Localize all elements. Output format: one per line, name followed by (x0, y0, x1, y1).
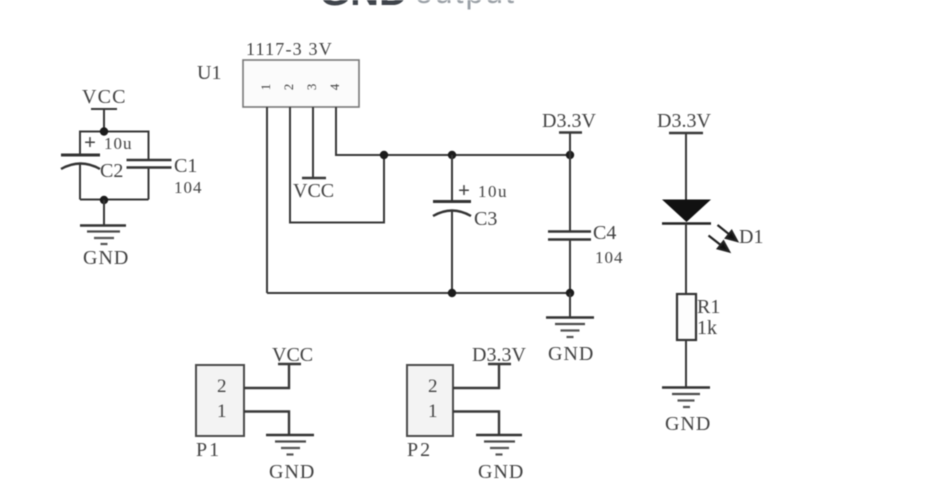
svg-text:104: 104 (595, 248, 624, 267)
wire LED cathode to R1 (685, 224, 687, 295)
connector P2 (407, 365, 453, 436)
wire P2 pin1 to ground (453, 412, 499, 435)
svg-text:10u: 10u (478, 182, 508, 201)
svg-text:U1: U1 (197, 62, 221, 84)
ground (LED) (662, 388, 710, 408)
ground (P2) (476, 435, 522, 455)
wire C3 top lead (451, 155, 453, 201)
junction C4/D3.3V top (566, 151, 574, 159)
wire C4 top lead (569, 155, 571, 231)
wire U1 pin1 to ground rail (266, 107, 268, 293)
svg-text:C2: C2 (100, 160, 123, 182)
svg-text:1: 1 (217, 401, 227, 422)
capacitor C1 (127, 160, 172, 168)
wire top rail C1/C2 (80, 132, 149, 161)
wire P2 pin2 to D3.3V (453, 365, 499, 389)
svg-text:C4: C4 (593, 222, 616, 244)
wire C4 bottom lead (569, 240, 571, 294)
junction C3 top (448, 151, 456, 159)
wire R1 to ground (685, 340, 687, 387)
svg-text:D3.3V: D3.3V (542, 110, 596, 132)
capacitor C2 (61, 155, 100, 169)
svg-text:GND: GND (319, 0, 408, 14)
regulator U1 (243, 60, 359, 107)
LED D1 (662, 200, 711, 224)
junction pin2/pin4 (380, 151, 388, 159)
wire U1 pin2 loop (290, 107, 384, 223)
LED light arrows (709, 225, 738, 252)
junction at C1/C2 bottom (100, 196, 108, 204)
svg-text:P2: P2 (407, 439, 432, 461)
wire P1 pin2 to VCC (244, 365, 289, 389)
wire C2 bottom lead (79, 164, 81, 200)
wire ground rail (bottom) (267, 292, 570, 294)
power symbol VCC (P1) (278, 363, 301, 365)
svg-text:GND: GND (548, 343, 594, 365)
capacitor C3 (433, 202, 471, 217)
svg-text:104: 104 (174, 178, 203, 197)
connector P1 (196, 365, 244, 436)
svg-text:VCC: VCC (272, 344, 313, 366)
svg-text:1117-3 3V: 1117-3 3V (246, 39, 333, 59)
wire to left ground (103, 200, 105, 225)
power symbol D3.3V (P2) (488, 363, 511, 365)
svg-text:C1: C1 (174, 155, 197, 177)
resistor R1 (677, 294, 696, 340)
svg-text:D1: D1 (739, 226, 763, 248)
svg-text:GND: GND (269, 461, 315, 483)
junction C3 bottom (448, 289, 456, 297)
wire to middle ground (569, 293, 571, 317)
svg-text:GND: GND (478, 461, 524, 483)
svg-text:P1: P1 (196, 439, 221, 461)
svg-text:4: 4 (327, 83, 342, 90)
junction at C1/C2 top (100, 127, 108, 135)
svg-text:2: 2 (281, 84, 296, 91)
wire C1 bottom lead (148, 168, 150, 200)
junction C4 bottom (566, 289, 574, 297)
wire C3 bottom lead (451, 211, 453, 293)
capacitor C4 (548, 232, 591, 240)
power symbol VCC (left) (91, 109, 117, 131)
power symbol D3.3V (LED) (669, 133, 703, 200)
svg-text:1k: 1k (697, 317, 717, 339)
svg-text:C3: C3 (474, 208, 497, 230)
svg-text:GND: GND (665, 413, 711, 435)
svg-text:1: 1 (258, 84, 273, 91)
svg-text:D3.3V: D3.3V (472, 344, 526, 366)
svg-text:D3.3V: D3.3V (657, 110, 711, 132)
svg-text:+: + (84, 130, 96, 154)
ground (middle) (546, 318, 594, 338)
power symbol VCC (U1 pin3) (302, 177, 326, 179)
svg-text:VCC: VCC (82, 86, 127, 108)
wire bottom rail C1/C2 (80, 199, 149, 201)
svg-text:1: 1 (428, 401, 438, 422)
svg-text:2: 2 (217, 376, 227, 397)
wire U1 pin3 to VCC (312, 107, 314, 177)
ground (left) (80, 226, 126, 245)
svg-text:2: 2 (428, 376, 438, 397)
wire P1 pin1 to ground (244, 412, 289, 435)
svg-text:+: + (458, 178, 470, 202)
svg-text:GND: GND (83, 247, 129, 269)
svg-text:10u: 10u (104, 134, 133, 153)
svg-text:output: output (415, 0, 516, 10)
svg-text:3: 3 (304, 84, 319, 91)
power symbol D3.3V (rail) (559, 133, 582, 156)
svg-text:R1: R1 (697, 296, 720, 318)
ground (P1) (266, 435, 314, 455)
svg-text:VCC: VCC (293, 180, 334, 202)
wire U1 pin4 to D3.3V rail (336, 107, 570, 155)
